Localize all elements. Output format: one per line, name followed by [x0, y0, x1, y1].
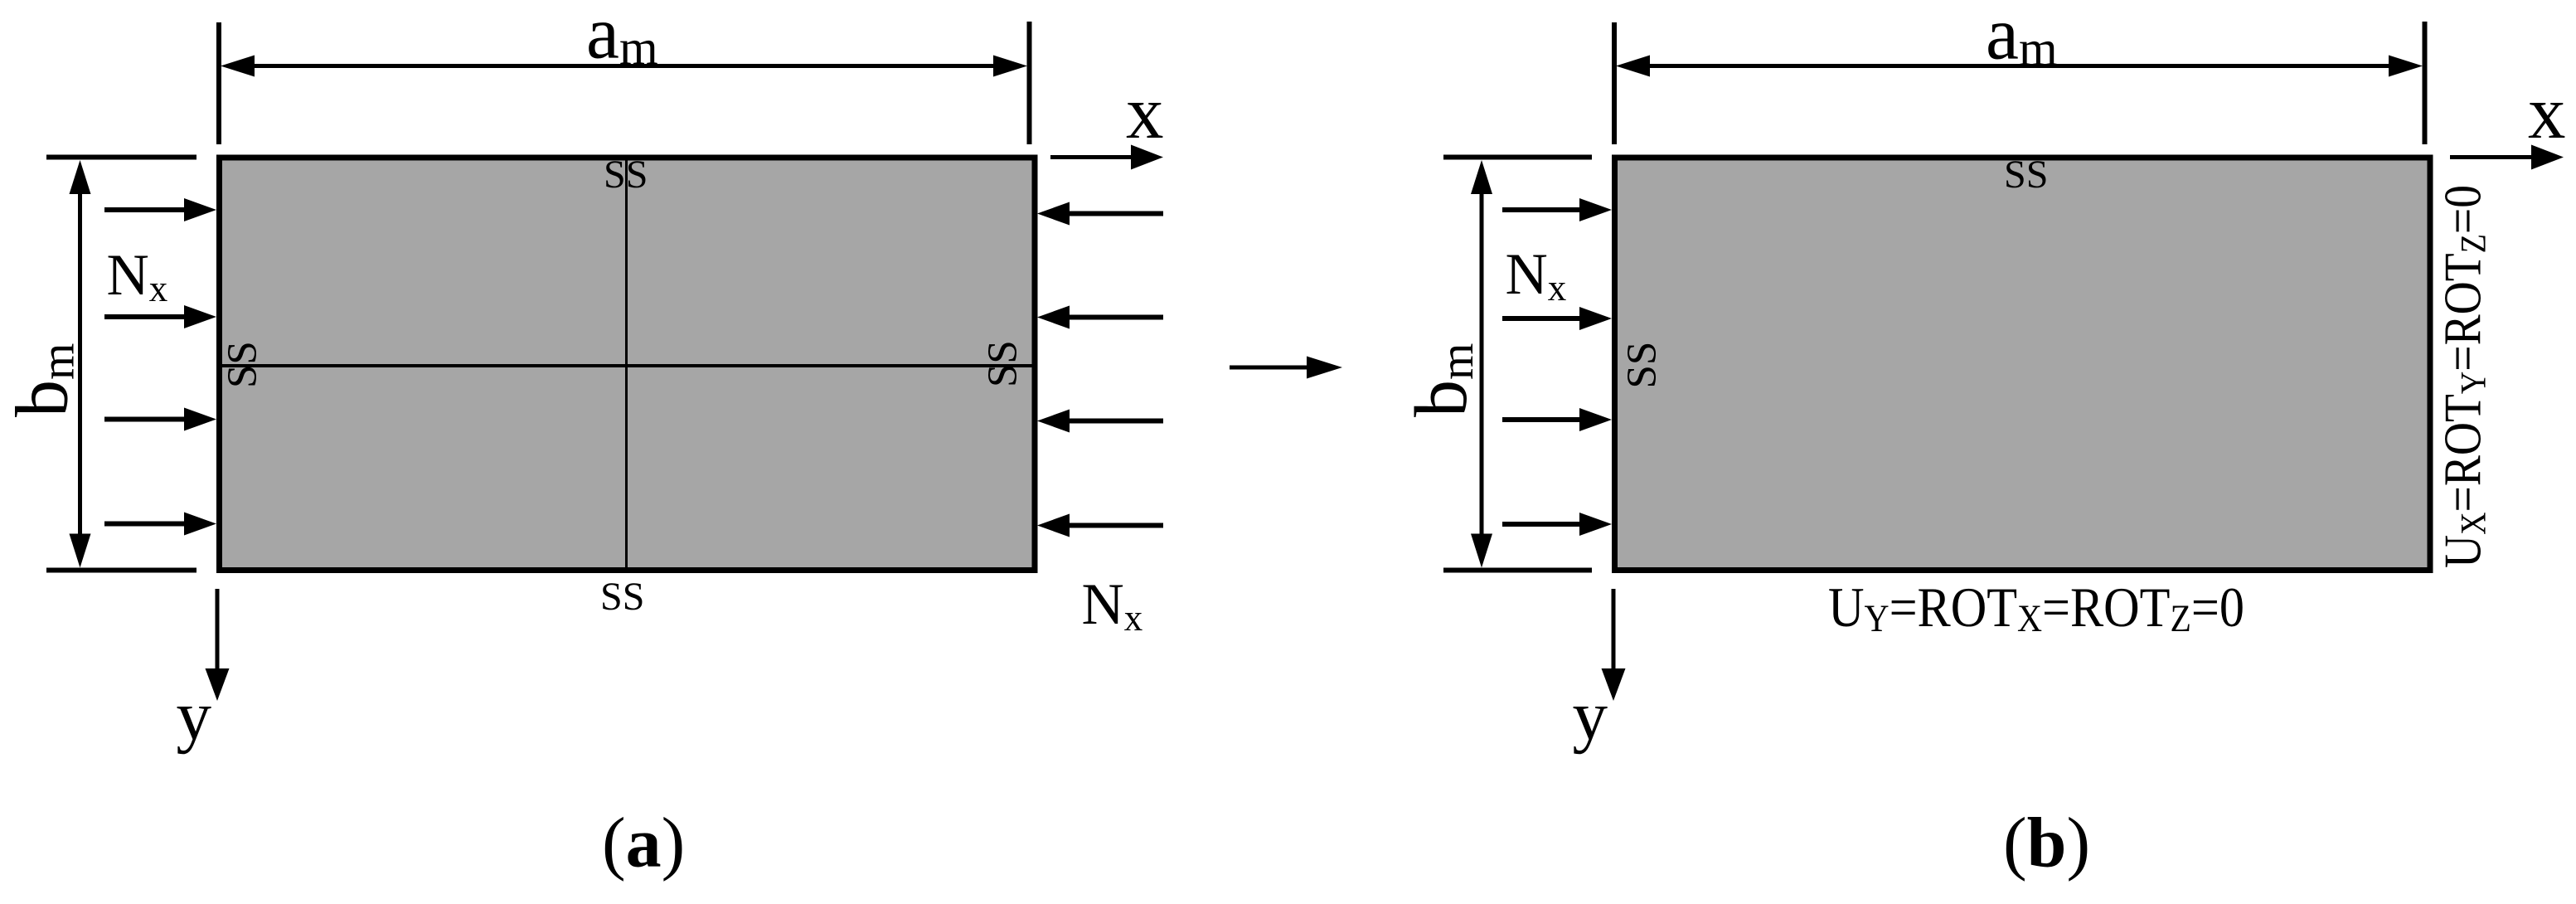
- y axis (a): arrow: [216, 589, 220, 670]
- plate (a) grey rectangle: [220, 158, 1036, 571]
- svg-text:UY=ROTX=ROTZ=0: UY=ROTX=ROTZ=0: [1828, 576, 2244, 640]
- svg-text:SS: SS: [1619, 342, 1666, 389]
- dimension b_m (a): top extension tick: [46, 155, 196, 160]
- dimension a_m (a): double-headed arrow: [251, 64, 997, 68]
- x axis (a): arrow: [1050, 155, 1133, 159]
- svg-text:x: x: [2528, 70, 2566, 154]
- svg-text:am: am: [1986, 0, 2058, 76]
- dimension a_m (b): right extension tick: [2423, 22, 2428, 144]
- load arrow N_x left 2 (a): [104, 314, 187, 319]
- load arrow N_x right 2 (a): [1067, 315, 1163, 320]
- svg-text:SS: SS: [220, 341, 266, 388]
- svg-text:(a): (a): [602, 803, 685, 882]
- load arrow N_x right 1 (a): [1067, 211, 1163, 216]
- svg-text:SS: SS: [600, 575, 644, 619]
- svg-text:SS: SS: [2004, 153, 2048, 197]
- svg-text:am: am: [586, 0, 658, 75]
- load arrow N_x left 3 (a): [104, 417, 187, 422]
- dimension a_m (a): left extension tick: [216, 22, 221, 144]
- dimension b_m (a): bottom extension tick: [46, 568, 196, 573]
- plate (a) horizontal midline: [222, 364, 1032, 367]
- svg-text:Nx: Nx: [1506, 242, 1567, 309]
- dimension b_m (a): double-headed arrow: [78, 192, 82, 535]
- dimension b_m (b): top extension tick: [1443, 155, 1592, 160]
- svg-text:SS: SS: [980, 340, 1026, 387]
- load arrow N_x left 1 (b): [1502, 207, 1582, 212]
- plate (a) vertical midline: [625, 161, 628, 571]
- svg-text:y: y: [1573, 677, 1608, 755]
- plate (b) grey rectangle: [1615, 158, 2431, 571]
- dimension b_m (b): bottom extension tick: [1443, 568, 1592, 573]
- x axis (b): arrow: [2450, 155, 2533, 159]
- svg-text:Nx: Nx: [107, 243, 168, 309]
- svg-text:Nx: Nx: [1082, 572, 1143, 639]
- load arrow N_x right 3 (a): [1067, 419, 1163, 424]
- load arrow N_x right 4 (a): [1067, 523, 1163, 528]
- svg-text:(b): (b): [2003, 803, 2090, 882]
- dimension a_m (a): right extension tick: [1027, 22, 1032, 144]
- svg-text:y: y: [177, 677, 212, 755]
- svg-text:SS: SS: [604, 153, 648, 197]
- transition arrow between (a) and (b): [1230, 366, 1310, 370]
- svg-text:x: x: [1126, 70, 1164, 154]
- svg-text:bm: bm: [1400, 343, 1483, 417]
- svg-text:bm: bm: [2, 343, 85, 417]
- load arrow N_x left 4 (b): [1502, 522, 1582, 527]
- svg-text:UX=ROTY=ROTZ=0: UX=ROTY=ROTZ=0: [2434, 185, 2494, 568]
- dimension a_m (b): double-headed arrow: [1647, 64, 2392, 68]
- dimension a_m (b): left extension tick: [1612, 22, 1617, 144]
- dimension b_m (b): double-headed arrow: [1480, 192, 1484, 535]
- boundary condition text right edge (b): U_X=ROT_Y=ROT_Z=0, rotated: [2434, 185, 2494, 568]
- load arrow N_x left 2 (b): [1502, 316, 1582, 321]
- load arrow N_x left 4 (a): [104, 522, 187, 527]
- y axis (b): arrow: [1612, 589, 1616, 670]
- load arrow N_x left 1 (a): [104, 207, 187, 212]
- load arrow N_x left 3 (b): [1502, 417, 1582, 422]
